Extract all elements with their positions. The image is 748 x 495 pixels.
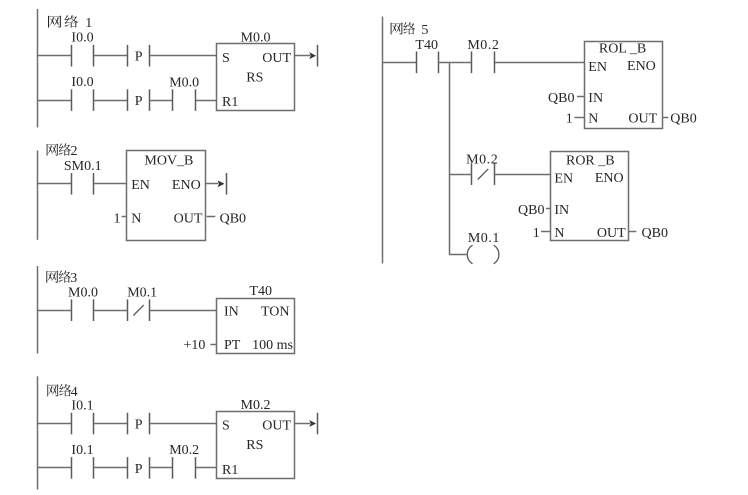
svg-text:M0.1: M0.1 xyxy=(127,285,157,300)
svg-text:M0.0: M0.0 xyxy=(169,75,199,90)
svg-text:IN: IN xyxy=(224,305,239,320)
svg-text:I0.0: I0.0 xyxy=(71,31,93,46)
svg-text:S: S xyxy=(222,419,230,434)
svg-text:RS: RS xyxy=(246,438,263,453)
svg-text:M0.0: M0.0 xyxy=(68,285,98,300)
svg-text:PT: PT xyxy=(224,338,241,353)
svg-text:100 ms: 100 ms xyxy=(252,338,293,353)
svg-text:M0.2: M0.2 xyxy=(241,398,271,413)
svg-text:OUT: OUT xyxy=(262,419,291,434)
svg-text:EN: EN xyxy=(554,172,573,187)
svg-text:OUT: OUT xyxy=(597,226,626,241)
svg-text:T40: T40 xyxy=(249,284,272,299)
svg-text:EN: EN xyxy=(588,60,607,75)
svg-text:MOV_B: MOV_B xyxy=(144,154,193,169)
svg-text:1: 1 xyxy=(566,112,573,127)
svg-text:R1: R1 xyxy=(222,463,238,478)
svg-text:QB0: QB0 xyxy=(518,203,544,218)
svg-text:M0.1: M0.1 xyxy=(468,231,500,246)
svg-text:P: P xyxy=(135,50,143,65)
svg-text:ROR _B: ROR _B xyxy=(566,153,615,168)
svg-text:OUT: OUT xyxy=(628,112,657,127)
svg-text:ENO: ENO xyxy=(172,178,201,193)
svg-text:R1: R1 xyxy=(222,95,238,110)
svg-text:S: S xyxy=(222,51,230,66)
svg-text:M0.2: M0.2 xyxy=(169,443,199,458)
svg-text:N: N xyxy=(554,226,564,241)
svg-text:SM0.1: SM0.1 xyxy=(64,159,102,174)
svg-text:I0.0: I0.0 xyxy=(71,75,93,90)
svg-text:ENO: ENO xyxy=(595,171,624,186)
svg-text:RS: RS xyxy=(246,70,263,85)
svg-text:QB0: QB0 xyxy=(548,91,574,106)
svg-text:ENO: ENO xyxy=(627,59,656,74)
svg-text:1: 1 xyxy=(533,226,540,241)
svg-text:M0.2: M0.2 xyxy=(466,153,498,168)
svg-text:+10: +10 xyxy=(183,338,205,353)
svg-text:5: 5 xyxy=(421,23,428,38)
svg-text:M0.0: M0.0 xyxy=(241,30,271,45)
svg-text:P: P xyxy=(135,462,143,477)
svg-text:P: P xyxy=(135,94,143,109)
svg-text:I0.1: I0.1 xyxy=(71,443,93,458)
svg-text:M0.2: M0.2 xyxy=(467,38,499,53)
svg-text:IN: IN xyxy=(554,203,569,218)
svg-text:IN: IN xyxy=(588,91,603,106)
svg-text:OUT: OUT xyxy=(174,212,203,227)
svg-text:QB0: QB0 xyxy=(642,226,668,241)
svg-text:EN: EN xyxy=(131,178,150,193)
svg-text:1: 1 xyxy=(114,212,121,227)
svg-text:I0.1: I0.1 xyxy=(71,398,93,413)
svg-text:OUT: OUT xyxy=(262,51,291,66)
svg-text:ROL _B: ROL _B xyxy=(599,42,646,57)
svg-text:N: N xyxy=(131,212,141,227)
svg-text:QB0: QB0 xyxy=(220,212,246,227)
svg-text:3: 3 xyxy=(70,271,77,286)
svg-text:T40: T40 xyxy=(415,38,438,53)
svg-text:N: N xyxy=(588,112,598,127)
svg-text:1: 1 xyxy=(85,16,92,31)
svg-text:QB0: QB0 xyxy=(670,112,696,127)
svg-text:P: P xyxy=(135,418,143,433)
svg-text:2: 2 xyxy=(71,144,78,159)
svg-text:TON: TON xyxy=(261,305,290,320)
